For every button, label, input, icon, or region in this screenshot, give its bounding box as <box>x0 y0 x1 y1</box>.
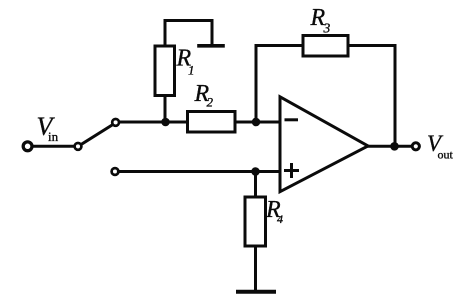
ground <box>238 290 274 294</box>
wire node A to R2 <box>166 121 189 124</box>
switch pole contact <box>75 143 82 150</box>
label R2 <box>194 81 214 110</box>
node C junction dot <box>251 167 260 176</box>
svg-text:in: in <box>48 129 59 144</box>
wire feedback left riser <box>255 46 258 123</box>
resistor R2 <box>188 112 236 133</box>
switch blade <box>82 125 113 145</box>
svg-text:1: 1 <box>188 63 195 78</box>
wire op-amp output <box>368 145 411 148</box>
label R4 <box>265 197 283 226</box>
resistor R3 <box>303 36 348 57</box>
wire upper throw to node A <box>120 121 166 124</box>
wire R1 top <box>165 21 212 47</box>
wire R2 to node B <box>235 121 256 124</box>
svg-text:4: 4 <box>277 212 283 226</box>
wire R1 bottom to node A <box>164 95 167 122</box>
node A junction dot <box>161 118 170 127</box>
label Vout <box>427 131 454 162</box>
label R3 <box>310 5 331 35</box>
op-amp U1 <box>280 97 368 192</box>
wire R3 to right riser <box>348 44 395 47</box>
svg-text:3: 3 <box>323 20 331 35</box>
switch throw contact lower <box>112 168 119 175</box>
wire right riser to output node <box>394 46 397 147</box>
switch throw contact upper <box>112 119 119 126</box>
wire riser to R3 <box>256 44 303 47</box>
terminal Vout <box>412 143 419 150</box>
wire Vin to switch pole <box>33 145 74 148</box>
output junction dot <box>390 142 399 151</box>
wire node C to R4 <box>254 172 257 198</box>
label Vin <box>37 112 59 144</box>
terminal Vin <box>23 142 32 151</box>
resistor R1 <box>155 46 175 96</box>
resistor R4 <box>245 197 266 246</box>
wire R4 to ground <box>254 246 257 291</box>
wire lower throw to op-amp noninverting input <box>118 170 280 173</box>
wire node B to op-amp inverting input <box>256 121 280 124</box>
op-amp plus pin mark <box>286 169 298 172</box>
node B junction dot <box>252 118 261 127</box>
label R1 <box>176 45 195 77</box>
chassis bar terminal <box>199 44 223 48</box>
svg-text:2: 2 <box>207 95 214 110</box>
op-amp minus pin mark <box>286 118 297 121</box>
svg-text:out: out <box>438 148 454 162</box>
